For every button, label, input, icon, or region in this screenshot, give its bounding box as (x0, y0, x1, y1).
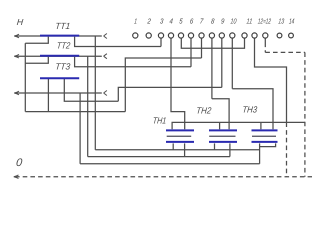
svg-text:6: 6 (190, 16, 194, 25)
svg-text:3: 3 (160, 16, 164, 25)
svg-text:2: 2 (146, 16, 151, 25)
svg-text:ТТ3: ТТ3 (55, 62, 71, 72)
svg-text:10: 10 (230, 16, 237, 25)
svg-text:11: 11 (246, 16, 253, 25)
svg-text:Н: Н (16, 17, 24, 27)
svg-text:0: 0 (15, 157, 23, 169)
svg-text:8: 8 (211, 16, 215, 25)
svg-text:9: 9 (221, 16, 225, 25)
svg-text:ТТ2: ТТ2 (56, 40, 70, 50)
svg-text:14: 14 (289, 16, 295, 25)
svg-text:13: 13 (278, 16, 285, 25)
svg-text:1: 1 (134, 16, 138, 25)
svg-text:ТН3: ТН3 (242, 105, 258, 115)
svg-text:ТН2: ТН2 (196, 106, 212, 116)
svg-text:7: 7 (199, 16, 204, 25)
svg-text:5: 5 (179, 16, 184, 25)
svg-text:4: 4 (169, 16, 173, 25)
svg-text:ТТ1: ТТ1 (55, 21, 71, 31)
svg-text:12=12: 12=12 (257, 16, 271, 25)
svg-text:ТН1: ТН1 (152, 116, 166, 126)
